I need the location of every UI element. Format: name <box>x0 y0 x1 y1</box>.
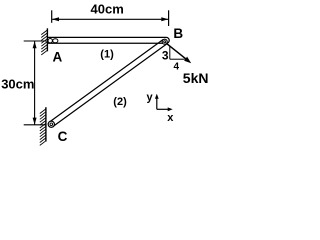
svg-text:(1): (1) <box>100 48 114 60</box>
svg-text:A: A <box>53 50 63 65</box>
svg-text:x: x <box>167 112 174 124</box>
svg-text:4: 4 <box>174 62 180 73</box>
svg-text:C: C <box>58 129 68 144</box>
svg-text:y: y <box>147 92 154 104</box>
svg-text:5kN: 5kN <box>183 70 208 86</box>
svg-text:40cm: 40cm <box>91 2 124 17</box>
svg-text:3: 3 <box>162 48 169 62</box>
svg-text:30cm: 30cm <box>1 77 34 92</box>
svg-text:B: B <box>173 26 183 41</box>
svg-text:(2): (2) <box>113 96 127 108</box>
